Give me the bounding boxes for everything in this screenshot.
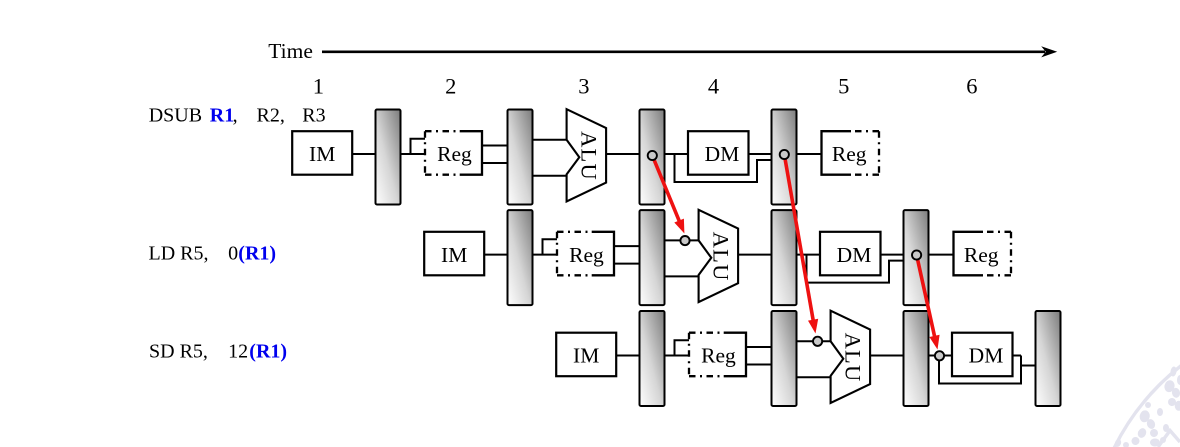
svg-text:Reg: Reg — [964, 243, 999, 267]
wire latch to Reg write row2 — [929, 254, 954, 256]
pipeline latch row1 stage IF/ID — [376, 110, 401, 205]
pipeline latch row2 stage EX/MEM — [772, 210, 797, 305]
pipeline latch row3 stage MEM/WB — [1036, 311, 1061, 406]
register file Reg (write) row1 — [822, 131, 880, 175]
svg-text:1: 1 — [313, 74, 324, 99]
wire register write stub row2 — [543, 239, 558, 254]
pipeline latch row3 stage IF/ID — [640, 311, 665, 406]
wire DM to latch row2 — [881, 254, 904, 256]
data memory DM row3 — [952, 333, 1013, 377]
wire ALU to latch row1 — [606, 153, 639, 155]
svg-text:DM: DM — [837, 243, 872, 267]
cycle number 4 — [708, 74, 719, 99]
wires Reg outputs to latch row1 — [482, 146, 508, 164]
wire IM to latch row1 — [352, 153, 375, 155]
svg-text:ALU: ALU — [708, 232, 733, 282]
svg-text:6: 6 — [966, 74, 977, 99]
label: Time — [268, 39, 313, 63]
wires latch to ALU row2 — [665, 240, 699, 276]
svg-text:ALU: ALU — [576, 131, 601, 181]
svg-text:Reg: Reg — [437, 142, 472, 166]
wires latch to ALU row3 — [797, 341, 831, 377]
wire latch to DM row3 — [929, 355, 953, 357]
data memory DM row2 — [820, 232, 881, 275]
pipeline latch row1 stage ID/EX — [508, 110, 533, 205]
wire register write stub row3 — [675, 340, 690, 355]
cycle number 5 — [838, 74, 849, 99]
wire IM to latch row2 — [484, 254, 507, 256]
node: SD DM input junction — [935, 351, 944, 360]
time axis arrow — [322, 46, 1057, 57]
pipeline latch row2 stage ID/EX — [640, 210, 665, 305]
instruction memory IM row1 — [292, 131, 352, 175]
svg-text:Time: Time — [268, 39, 313, 63]
pipeline latch row1 stage EX/MEM — [640, 110, 665, 205]
svg-text:DM: DM — [705, 142, 740, 166]
svg-text:IM: IM — [309, 142, 335, 166]
ALU row2 — [699, 210, 739, 302]
watermark seal (bottom-right, decorative stamp) — [1090, 316, 1180, 447]
pipeline latch row2 stage MEM/WB — [904, 210, 929, 305]
forwarding arrow R1: DSUB MEM/WB to SD ALU input — [784, 155, 818, 334]
pipeline latch row3 stage EX/MEM — [904, 311, 929, 406]
pipeline latch row2 stage IF/ID — [508, 210, 533, 305]
register file Reg (read) row1 — [425, 131, 482, 175]
wire ALU to latch row2 — [738, 254, 771, 256]
ALU row3 — [831, 311, 871, 403]
wire latch to DM row1 — [665, 153, 689, 155]
node: LD MEM/WB latch output — [912, 250, 921, 259]
instruction label: LD R5, 0(R1) — [149, 243, 277, 265]
register file Reg (write) row2 — [954, 232, 1012, 275]
svg-text:DM: DM — [969, 344, 1004, 368]
bypass wire under DM row2 — [807, 255, 904, 283]
cycle number 6 — [966, 74, 977, 99]
bypass wire under DM row1 — [675, 154, 772, 182]
bypass wire under DM row3 — [939, 356, 1021, 384]
svg-text:Reg: Reg — [701, 344, 736, 368]
pipeline latch row3 stage ID/EX — [772, 311, 797, 406]
pipeline latch row1 stage MEM/WB — [772, 110, 797, 205]
svg-text:Reg: Reg — [569, 243, 604, 267]
wire latch to Reg row2 — [533, 254, 558, 256]
node: DSUB MEM/WB latch output — [780, 150, 789, 159]
node: LD ALU upper input — [680, 236, 689, 245]
data memory DM row1 — [688, 131, 749, 175]
wire IM to latch row3 — [616, 355, 639, 357]
forwarding arrow R5: LD MEM/WB to SD DM input — [917, 255, 940, 350]
svg-text:IM: IM — [573, 344, 599, 368]
svg-text:IM: IM — [441, 243, 467, 267]
ALU row1 — [567, 109, 607, 201]
wires latch to ALU row1 — [533, 140, 567, 176]
register file Reg (read) row3 — [689, 333, 746, 377]
wire latch to Reg write row1 — [797, 153, 822, 155]
instruction label: DSUB R1, R2, R3 — [149, 104, 326, 126]
cycle number 2 — [445, 74, 456, 99]
wires Reg outputs to latch row3 — [746, 347, 772, 365]
svg-text:2: 2 — [445, 74, 456, 99]
wires Reg outputs to latch row2 — [614, 246, 640, 264]
register file Reg (read) row2 — [557, 232, 614, 275]
instruction label: SD R5, 12(R1) — [149, 340, 287, 362]
svg-text:3: 3 — [578, 74, 589, 99]
wire DM output step into latch row3 — [1013, 356, 1036, 366]
cycle number 1 — [313, 74, 324, 99]
wire register write stub row1 — [411, 139, 426, 154]
instruction memory IM row2 — [424, 232, 484, 275]
node: DSUB EX/MEM latch output — [648, 151, 657, 160]
wire latch to Reg row3 — [665, 355, 690, 357]
node: SD ALU upper input — [813, 337, 822, 346]
svg-text:Reg: Reg — [832, 142, 867, 166]
svg-text:4: 4 — [708, 74, 719, 99]
wire DM to latch row1 — [749, 153, 772, 155]
svg-text:ALU: ALU — [840, 333, 865, 383]
wire ALU to latch row3 — [870, 355, 903, 357]
cycle number 3 — [578, 74, 589, 99]
forwarding arrow R1: DSUB EX/MEM to LD ALU input — [652, 156, 684, 234]
wire latch to Reg row1 — [401, 153, 426, 155]
svg-text:5: 5 — [838, 74, 849, 99]
instruction memory IM row3 — [556, 333, 616, 377]
wire latch to DM row2 — [797, 254, 821, 256]
